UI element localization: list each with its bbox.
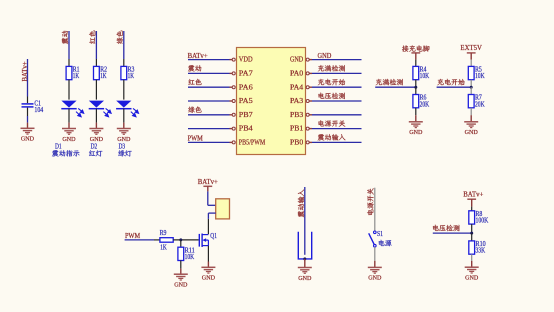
svg-text:S1: S1 [377,231,383,238]
svg-text:PB1: PB1 [290,125,304,133]
svg-text:EXT5V: EXT5V [460,45,482,52]
pin PA0 (right) [290,70,312,78]
wire 红色 net to R2 [95,31,97,66]
svg-text:GND: GND [202,275,215,282]
node (R4/R6 junction) [414,86,417,89]
resistor R4 [413,66,429,80]
wire from pin PB0 [312,141,362,143]
pin PB7 (left) [230,111,254,119]
svg-text:GND: GND [465,129,478,136]
wire to pin PA6 [188,86,230,88]
svg-text:D3: D3 [119,143,126,150]
net label PWM [188,136,203,143]
ground [89,129,103,143]
svg-text:GND: GND [409,129,422,136]
power port bar (接充电脚) [411,53,420,60]
svg-text:1K: 1K [128,73,134,80]
wire C1 to ground [27,108,29,129]
wire to pin PB4 [188,128,230,130]
wire R7 to ground [470,108,472,122]
wire to pin VDD [188,59,230,61]
wire from pin PA4 [312,86,362,88]
svg-text:PB7: PB7 [239,111,253,119]
svg-text:GND: GND [90,136,103,143]
wire to pin PA7 [188,72,230,74]
pin PB1 (right) [290,125,312,133]
wire R2 to D2 [95,80,97,100]
node (gate/R11 junction) [179,238,182,241]
svg-text:PA6: PA6 [239,83,253,91]
wire 震动输入 into sensor [304,187,306,255]
wire to pin PA5 [188,100,230,102]
wire S1 to ground [374,247,376,267]
resistor R7 [468,95,484,109]
svg-text:33K: 33K [476,248,486,255]
svg-text:GND: GND [117,136,130,143]
net label PWM [125,233,140,240]
svg-text:10K: 10K [420,73,430,80]
ground [62,129,76,143]
wire to pin PB7 [188,114,230,116]
node (sensor to ground) [303,257,306,260]
LED D1 [61,101,83,117]
pin PA6 (left) [230,83,254,91]
svg-text:PA4: PA4 [290,83,304,91]
net label GND [318,53,332,60]
svg-text:PA0: PA0 [290,70,304,78]
wire PWM to R9 [125,239,160,241]
ground [298,268,312,282]
LED D2 [89,101,111,117]
svg-text:GND: GND [465,275,478,282]
svg-text:D1: D1 [55,143,62,150]
pin PB0 (right) [290,139,312,147]
svg-text:1K: 1K [160,244,167,251]
svg-text:BATv+: BATv+ [463,191,483,198]
wire R3 to D3 [123,80,125,100]
wire node to R6 [415,87,417,94]
net label 接充电脚 [402,45,429,51]
net label 充满检测 (at divider) [376,79,403,85]
wire node to R11 [180,240,182,247]
net label 电源开关 (vertical) [367,188,373,215]
wire 充电开始 [437,86,472,88]
svg-text:GND: GND [298,275,311,282]
transistor Q1 (NMOS) [199,233,217,247]
LED D3 [116,101,138,117]
wire motor to Q1 drain [208,213,215,219]
svg-text:GND: GND [368,275,381,282]
node (R5/R7 junction) [470,86,473,89]
net label BATv+ [188,53,208,60]
IC U1 (MCU body) [237,48,306,155]
net label 绿色 (vertical) [117,31,123,44]
svg-text:BATv+: BATv+ [198,179,218,186]
net label 红色 [188,79,201,85]
resistor R2 [94,66,108,80]
pin VDD (left) [230,56,253,64]
net label 震动输入 (vertical) [298,190,304,218]
svg-text:PA7: PA7 [239,70,253,78]
wire 充满检测 [375,86,416,88]
svg-text:1K: 1K [73,73,79,80]
wire D1 to ground [68,109,70,129]
wire 电压检测 [433,232,472,234]
capacitor C1 104 [22,101,44,114]
designator D1 震动指示 [52,143,79,156]
svg-text:PB4: PB4 [239,125,253,133]
net label 震动 (vertical) [62,31,68,44]
pin PA3 (right) [290,97,312,105]
svg-text:100K: 100K [476,218,489,225]
wire from pin PB3 [312,114,362,116]
svg-text:20K: 20K [420,101,430,108]
svg-text:PA5: PA5 [239,97,253,105]
resistor R1 [66,66,80,80]
resistor R9 1K (horizontal) [160,230,174,251]
ground [117,129,131,143]
ground [21,128,35,142]
svg-text:PB5/PWM: PB5/PWM [239,139,266,147]
wire R9 to Q1 gate [173,239,199,241]
ground [201,267,215,281]
ground [368,267,382,281]
wire R8 to node [471,224,473,233]
net label 充电开始 (at divider) [437,79,464,85]
wire Q1 source to ground [207,246,209,268]
designator D2 红灯 [89,143,102,156]
svg-text:PWM: PWM [125,233,140,240]
wire from pin PB1 [312,128,362,130]
pin PB5/PWM (left) [230,139,266,147]
wire node to R7 [470,87,472,94]
power port bar (EXT5V) [467,53,476,60]
wire from pin GND [312,59,362,61]
svg-text:PB0: PB0 [290,139,304,147]
wire R6 to ground [415,108,417,122]
svg-text:PB3: PB3 [290,111,304,119]
wire R1 to D1 [68,80,70,100]
svg-text:GND: GND [62,136,75,143]
wire from pin PA0 [312,72,362,74]
switch S1 电源 [369,231,392,247]
ground [174,274,188,288]
power port bar (BATv+) [203,186,212,191]
svg-text:20K: 20K [475,101,485,108]
svg-text:GND: GND [290,56,303,64]
wire 震动 net to R1 [68,31,70,66]
resistor R11 [178,247,195,261]
pin PB4 (left) [230,125,254,133]
svg-text:104: 104 [34,107,43,114]
net label 红色 (vertical) [89,31,95,44]
pin PA4 (right) [290,83,312,91]
ground [409,122,423,136]
designator D3 绿灯 [118,143,131,156]
wire 绿色 net to R3 [123,31,125,66]
wire node to R10 [471,233,473,241]
net label 电压检测 [318,93,344,99]
wire R10 to ground [471,254,473,267]
node (R8/R10 junction) [470,232,473,235]
pin PA5 (left) [230,97,254,105]
ground [464,122,478,136]
resistor R5 [468,66,484,80]
resistor R6 [413,95,429,109]
wire to R8 [471,207,473,211]
wire BATv+ rail down to C1 [27,59,29,103]
svg-text:GND: GND [21,136,34,143]
net label BATv+ (divider) [463,191,483,198]
net label 电源开关 [318,120,345,126]
net label EXT5V [460,45,482,52]
pin PA7 (left) [230,70,254,78]
resistor R10 [469,241,486,255]
wire from pin PA3 [312,100,362,102]
wire 电源开关 to S1 [374,188,376,231]
wire R11 to ground [180,261,182,275]
wire D2 to ground [95,109,97,129]
wire R4 to node [415,80,417,88]
svg-text:GND: GND [318,53,332,60]
wire to R5 [470,60,472,67]
pin PB3 (right) [290,111,312,119]
svg-text:10K: 10K [185,254,195,261]
svg-text:D2: D2 [91,143,98,150]
wire D3 to ground [123,109,125,129]
pin GND (right) [290,56,312,64]
wire Q1 drain [207,219,209,234]
net label 震动 [188,65,201,71]
net label 震动输入 [318,134,346,140]
net label BATv+ (motor) [198,179,218,186]
net label 绿色 [188,106,201,112]
svg-text:Q1: Q1 [210,233,217,240]
net label 充满检测 [318,65,345,71]
net label 电压检测 [433,225,459,231]
resistor R3 [121,66,135,80]
svg-text:BATv+: BATv+ [188,53,208,60]
power port bar (BATv+ divider) [467,199,476,206]
wire R5 to node [470,80,472,88]
svg-text:1K: 1K [100,73,106,80]
wire BATv+ to motor [208,191,216,205]
svg-text:GND: GND [174,282,187,289]
vibration switch (spring sensor) [298,232,311,259]
svg-text:PWM: PWM [188,136,203,143]
wire to pin PB5/PWM [188,141,230,143]
svg-text:10K: 10K [475,73,485,80]
resistor R8 [469,211,489,225]
motor block (sheet part) [216,199,230,219]
svg-text:PA3: PA3 [290,97,304,105]
svg-text:VDD: VDD [239,56,253,64]
ground [465,267,479,281]
wire to R4 [415,60,417,67]
net label 充电开始 [318,79,345,85]
svg-text:R9: R9 [160,230,167,237]
wire sensor to ground [304,259,306,268]
